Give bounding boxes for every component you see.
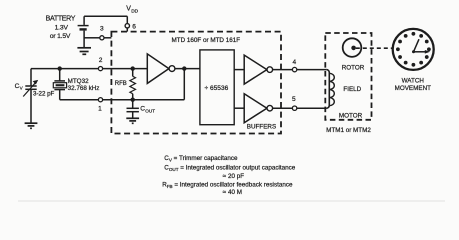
op-amp U1 oscillator inverter	[147, 54, 175, 84]
labels ROTOR / FIELD / MOTOR	[339, 65, 365, 120]
wire node 1 to feedback corner	[103, 99, 185, 101]
wire node 6 to IC top	[126, 28, 128, 32]
svg-text:WATCH: WATCH	[402, 77, 425, 84]
wire battery top stem	[83, 16, 85, 25]
wire divider to buffer top	[234, 69, 244, 71]
svg-text:3: 3	[100, 25, 104, 32]
svg-text:4: 4	[292, 59, 296, 66]
svg-text:6: 6	[132, 24, 136, 31]
node Vdd label	[126, 6, 138, 15]
svg-text:MTM1 or MTM2: MTM1 or MTM2	[326, 127, 371, 134]
svg-text:3-22 pF: 3-22 pF	[33, 91, 55, 98]
crystal MTQ32	[53, 69, 66, 100]
svg-text:or 1.5V: or 1.5V	[50, 33, 71, 40]
node feedback junction	[182, 66, 186, 70]
svg-text:÷ 65536: ÷ 65536	[205, 85, 229, 92]
svg-text:MTQ32: MTQ32	[68, 78, 89, 85]
svg-text:DD: DD	[131, 8, 138, 14]
svg-text:MOVEMENT: MOVEMENT	[395, 85, 432, 92]
svg-text:5: 5	[292, 96, 296, 103]
dashed link rotor to watch	[356, 47, 393, 49]
svg-text:BUFFERS: BUFFERS	[247, 124, 276, 131]
svg-text:BATTERY: BATTERY	[46, 16, 76, 23]
labels Cv 3-22 pF	[15, 83, 55, 98]
svg-text:1.3V: 1.3V	[55, 24, 69, 31]
inductor L field coil	[326, 70, 334, 109]
svg-text:≈ 40 M: ≈ 40 M	[223, 189, 242, 196]
svg-text:FIELD: FIELD	[343, 86, 361, 93]
wire battery to ground	[83, 31, 85, 48]
wire node 5 to motor	[297, 107, 327, 109]
labels MTQ32 32.768 kHz	[68, 78, 100, 92]
label WATCH MOVEMENT	[395, 77, 432, 92]
svg-text:RFB = Integrated oscillator fe: RFB = Integrated oscillator feedback res…	[162, 181, 293, 188]
wire buffer bottom out	[273, 107, 293, 109]
wire node 3 to IC	[104, 37, 111, 39]
IC dashed box MTD160F	[111, 32, 281, 134]
svg-text:MTD 160F or MTD 161F: MTD 160F or MTD 161F	[172, 37, 241, 44]
svg-text:RFB: RFB	[115, 81, 127, 87]
svg-text:≈ 20 pF: ≈ 20 pF	[223, 173, 244, 180]
label Cout	[140, 106, 155, 114]
svg-text:V: V	[20, 86, 24, 91]
wire top Vdd rail	[84, 15, 127, 17]
battery label	[46, 16, 76, 41]
wire buffer top out	[273, 69, 293, 71]
ground Cv	[25, 123, 38, 128]
wire inverter out to divider	[175, 68, 200, 70]
capacitor Cv (trimmer)	[23, 69, 37, 123]
node 1	[98, 98, 102, 102]
watch movement clock	[393, 29, 434, 70]
wire divider to buffer bottom	[234, 107, 244, 109]
scan artifact line	[18, 200, 445, 202]
wire Vdd down	[126, 16, 128, 23]
svg-text:ROTOR: ROTOR	[342, 65, 365, 72]
svg-text:COUT = Integrated oscillator o: COUT = Integrated oscillator output capa…	[164, 165, 296, 172]
wire node 2 to inverter	[103, 68, 148, 70]
node crystal top junction	[58, 66, 62, 70]
node 2	[98, 67, 102, 71]
svg-text:MOTOR: MOTOR	[339, 113, 363, 120]
svg-text:32.768 kHz: 32.768 kHz	[68, 85, 100, 92]
node 6	[125, 24, 129, 28]
svg-text:2: 2	[99, 57, 103, 64]
motor dashed box	[325, 33, 371, 120]
wire node 3 branch	[84, 37, 100, 39]
buffer U4 (bottom)	[244, 94, 272, 123]
capacitor Cout	[127, 100, 139, 118]
node 5	[292, 106, 296, 110]
buffer U3 (top)	[244, 55, 272, 84]
ground battery	[77, 48, 91, 55]
divider U2	[200, 50, 234, 125]
legend	[162, 155, 296, 196]
rotor symbol	[343, 38, 362, 57]
resistor RFB	[130, 66, 136, 102]
label RFB	[115, 81, 127, 87]
wire node 4 to motor	[297, 69, 327, 71]
svg-text:CV = Trimmer capacitance: CV = Trimmer capacitance	[164, 155, 238, 162]
battery B1	[78, 26, 89, 30]
svg-text:1: 1	[98, 105, 102, 112]
node 4	[292, 67, 296, 71]
wire crystal bottom row	[60, 99, 99, 101]
wire feedback vertical	[183, 69, 185, 100]
wire oscillator row left	[31, 68, 98, 70]
ground Cout	[126, 118, 139, 123]
node 3	[100, 36, 104, 40]
svg-text:OUT: OUT	[145, 108, 155, 113]
